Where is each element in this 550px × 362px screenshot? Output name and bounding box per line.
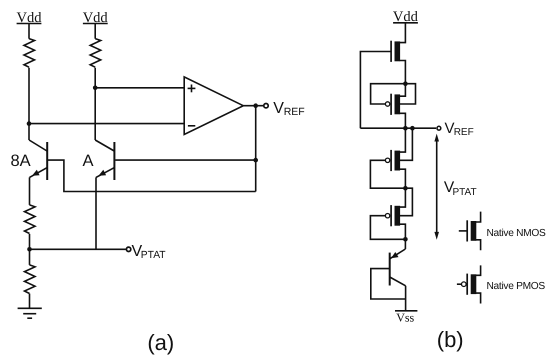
label VPTAT (b) (444, 179, 477, 198)
wire Q3 collector to Vss (405, 286, 407, 311)
svg-text:PTAT: PTAT (141, 250, 166, 261)
transistor Q3 PNP (390, 239, 406, 285)
supply Vdd (b) (393, 9, 419, 25)
wire M3 gate loop (370, 160, 405, 188)
node VREF (b) (403, 126, 408, 131)
wire Q1 emitter down (29, 177, 31, 205)
resistor R4 (25, 265, 36, 294)
wire Vdd1 to R1 (28, 24, 30, 39)
wire op-amp output (243, 105, 263, 107)
transistor Q1 (8A) (29, 140, 47, 180)
op-amp U1 (184, 77, 243, 135)
terminal VREF (b) (437, 126, 441, 130)
svg-text:(b): (b) (437, 327, 464, 352)
transistor native NMOS sample (459, 212, 481, 251)
terminal VPTAT (126, 247, 130, 251)
wire R4 to ground (29, 294, 31, 309)
wire M2 gate loop (371, 84, 406, 104)
svg-text:REF: REF (454, 127, 474, 138)
transistor M1 native NMOS (391, 41, 400, 62)
arrow VPTAT measure (434, 134, 439, 240)
wire to op-amp non-inverting input (95, 87, 184, 89)
node Q2 base feedback (253, 158, 258, 163)
transistor Q2 (A) (95, 140, 114, 180)
supply Vdd right (a) (83, 10, 109, 26)
wire M1 source to node1 (400, 61, 406, 84)
wire R3 to VPTAT node (29, 234, 31, 249)
wire M2 bulk loop (400, 84, 416, 104)
wire to op-amp inverting input (29, 123, 184, 125)
node3 (403, 237, 408, 242)
svg-text:V: V (273, 100, 284, 117)
wire Q2 emitter down (95, 177, 97, 249)
wire R1 to Q1 collector (28, 68, 30, 140)
node left branch tap (27, 121, 32, 126)
transistor M4 native PMOS (385, 205, 400, 226)
svg-text:PTAT: PTAT (453, 187, 477, 198)
wire M2 top lead (400, 84, 406, 97)
wire VREF row (360, 127, 436, 129)
svg-text:8A: 8A (11, 152, 31, 170)
wire R2 to Q2 collector (94, 68, 96, 140)
wire M3 bulk loop (400, 128, 413, 160)
wire M3 top lead (400, 128, 406, 152)
transistor native PMOS sample (457, 265, 481, 303)
resistor R1 (24, 39, 35, 68)
wire Vdd2 to R2 (94, 24, 96, 39)
svg-text:Vss: Vss (396, 310, 414, 324)
transistor M2 native PMOS (385, 94, 400, 115)
wire Vdd to M1 drain (400, 23, 406, 43)
wire VPTAT node to R4 (29, 249, 31, 265)
svg-text:REF: REF (284, 106, 305, 118)
label VREF (b) (445, 120, 474, 138)
node VPTAT (27, 247, 32, 252)
wire Q3 base loop (371, 269, 406, 299)
wire M4 bulk loop (400, 188, 413, 216)
wire VPTAT line (30, 248, 126, 250)
label VPTAT (a) (132, 243, 167, 261)
svg-text:Native PMOS: Native PMOS (487, 281, 546, 292)
node right branch tap (93, 86, 98, 91)
wire M4 gate loop (370, 216, 405, 240)
wire M3 bottom lead (400, 169, 406, 188)
node VREF (a) (253, 103, 258, 108)
wire M1 gate feedback (360, 52, 391, 129)
svg-text:(a): (a) (147, 330, 174, 355)
resistor R3 (25, 205, 36, 234)
node bulk tap (b) (410, 126, 415, 131)
supply Vdd left (a) (17, 10, 43, 26)
supply Vss (395, 310, 417, 324)
transistor M3 native PMOS (385, 150, 400, 171)
wire Q2 base (115, 159, 256, 161)
wire M4 bottom lead (400, 224, 406, 239)
wire Q1 base path (48, 160, 256, 191)
wire M2 bottom lead to VREF row (400, 113, 406, 128)
ground (18, 308, 42, 318)
node2 (403, 186, 408, 191)
terminal VREF (a) (264, 104, 268, 108)
wire feedback vertical (255, 106, 257, 192)
svg-text:A: A (83, 152, 94, 170)
label VREF (a) (273, 100, 305, 118)
wire M4 top lead (400, 188, 406, 207)
node1 (403, 81, 408, 86)
resistor R2 (90, 39, 101, 68)
svg-text:Native NMOS: Native NMOS (487, 228, 546, 239)
